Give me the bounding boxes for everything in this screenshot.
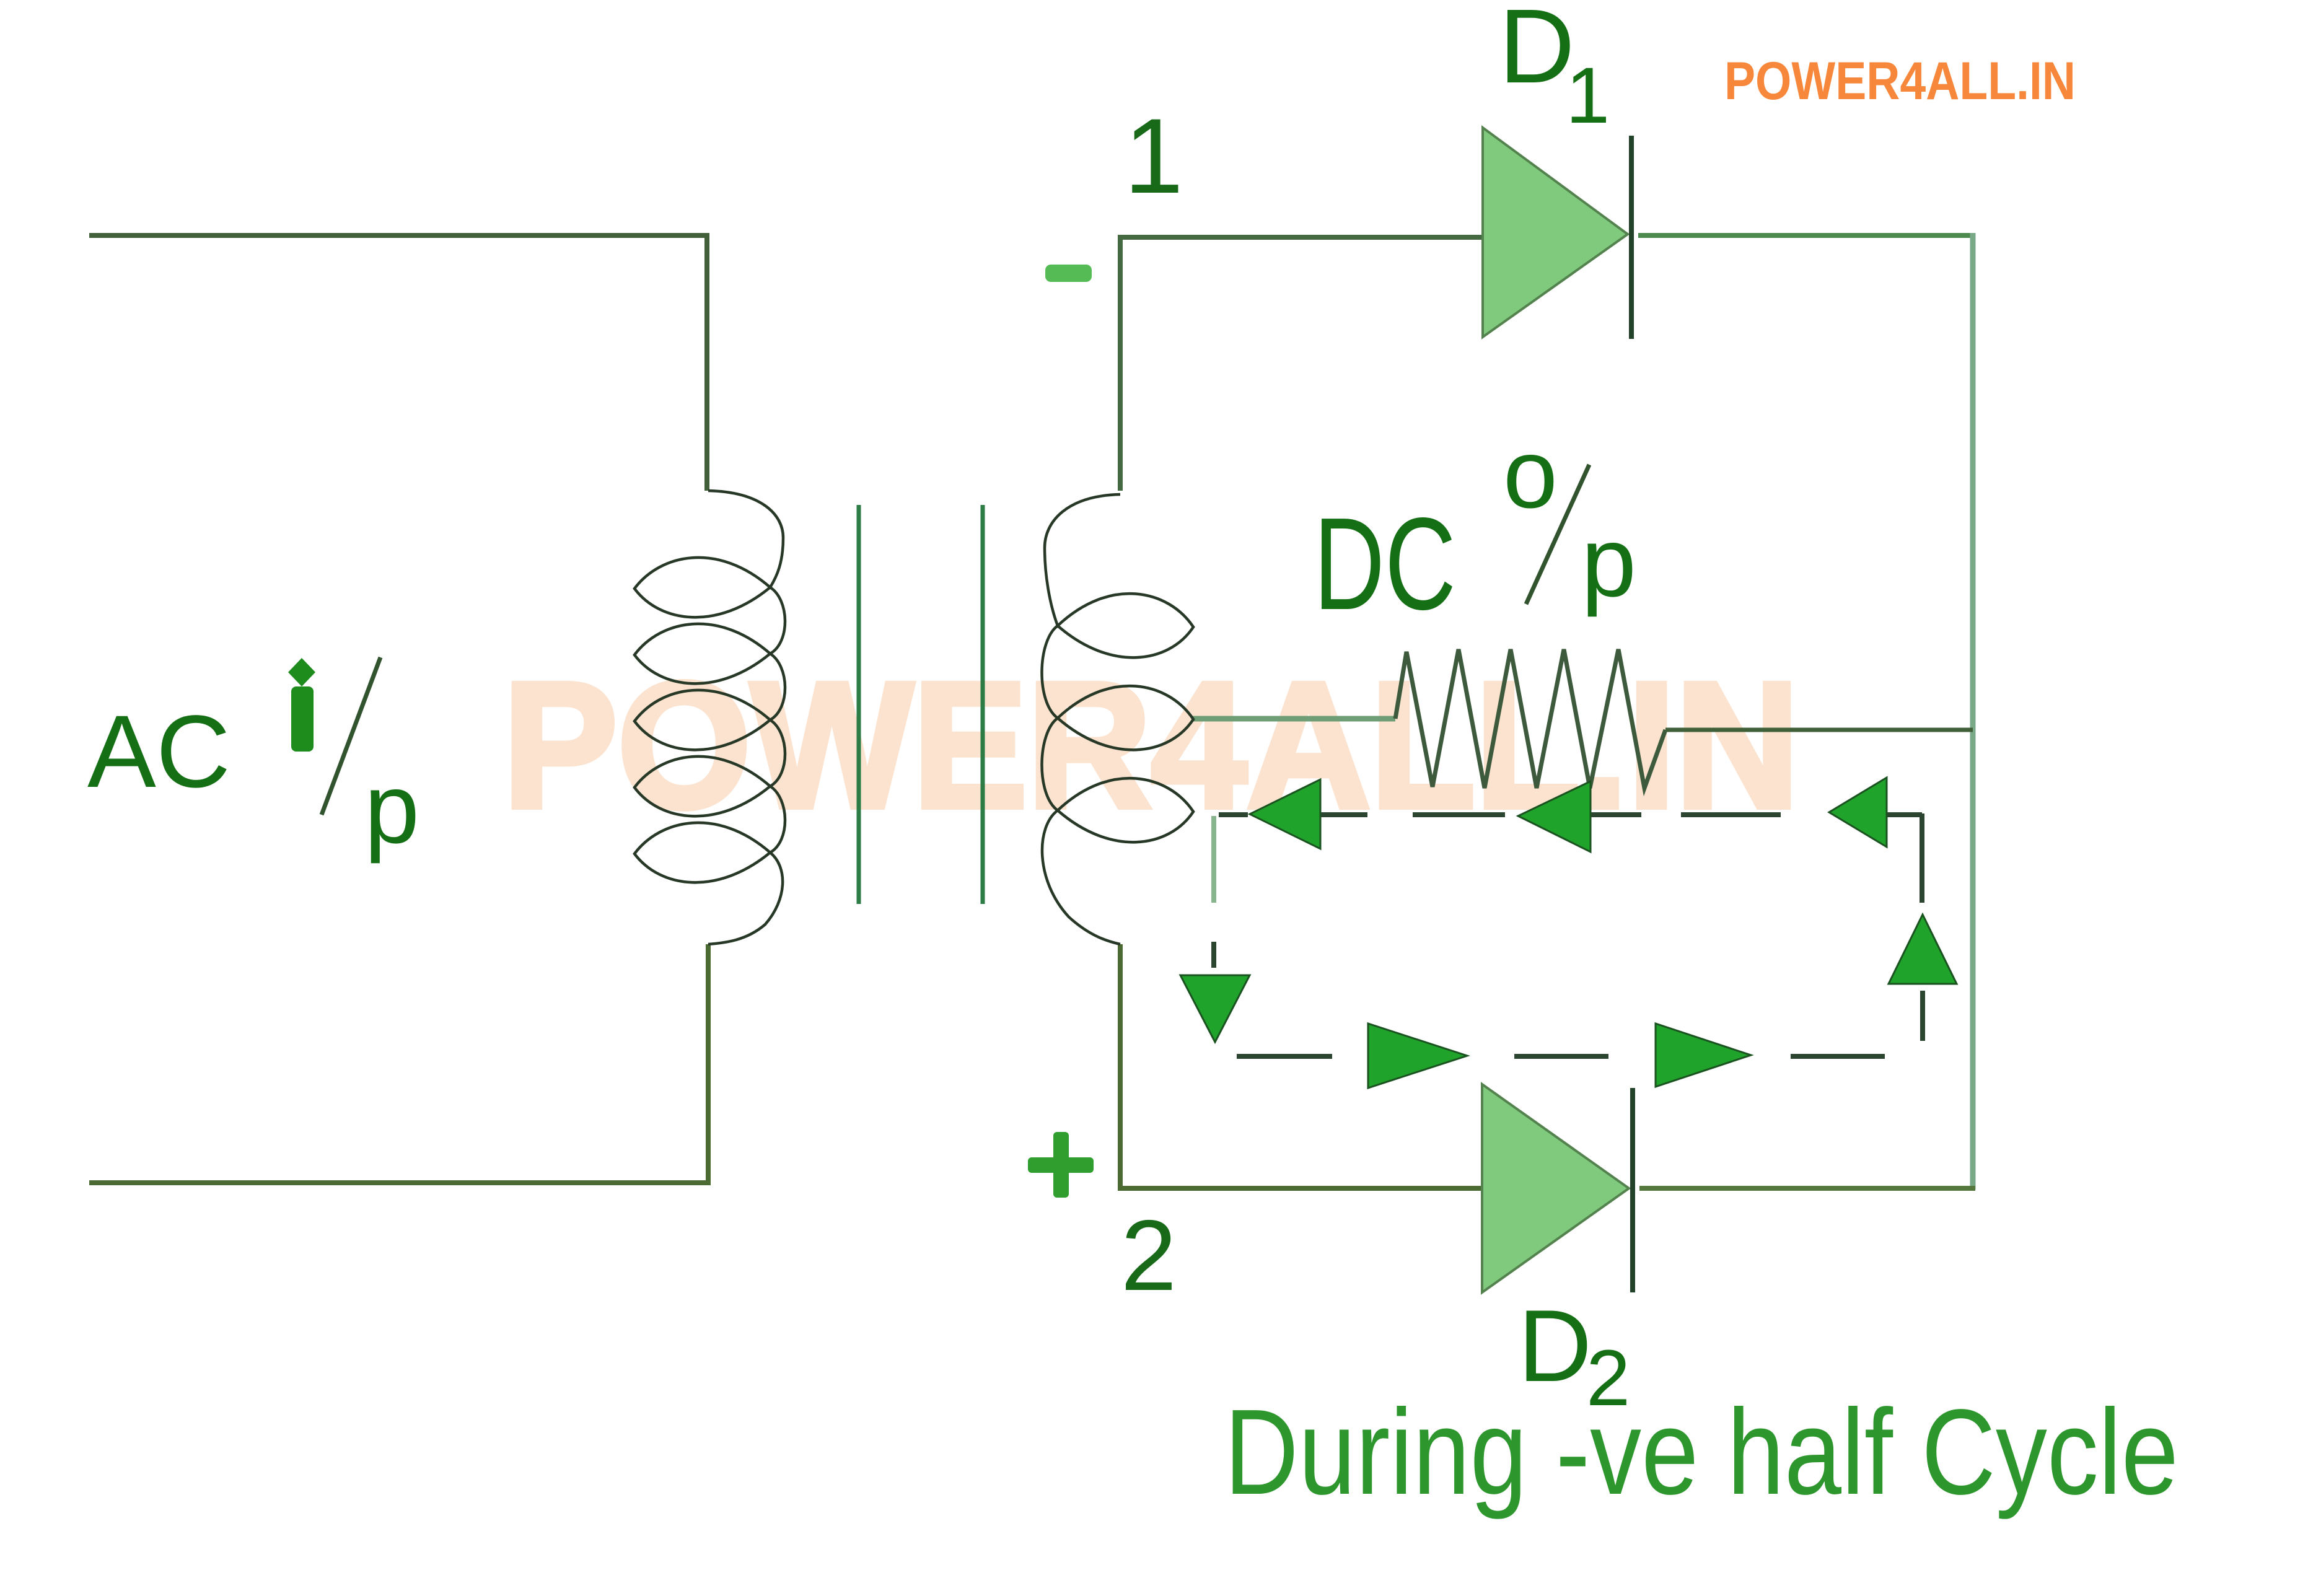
svg-text:p: p	[1581, 506, 1636, 617]
current arrow left 1 (top)	[1250, 779, 1320, 849]
svg-text:1: 1	[1124, 97, 1183, 216]
wire: secondary top terminal 1 to D1 anode	[1120, 237, 1483, 491]
svg-text:During -ve half Cycle: During -ve half Cycle	[1224, 1384, 2179, 1520]
wire: bottom rail from D2 cathode to right rail	[1639, 1186, 1975, 1191]
transformer primary winding	[634, 491, 785, 944]
wire: load to right rail	[1665, 728, 1973, 732]
current arrow right 2 (bottom)	[1656, 1024, 1751, 1087]
svg-text:2: 2	[1121, 1199, 1177, 1312]
svg-text:POWER4ALL.IN: POWER4ALL.IN	[1724, 51, 2076, 111]
transformer core line 1	[857, 505, 861, 904]
current arrow left 3 (top)	[1829, 778, 1887, 847]
dashed current path: right corner vertical	[1920, 813, 1924, 903]
diode D2 cathode bar	[1630, 1088, 1635, 1292]
current arrow down (left side)	[1180, 975, 1250, 1042]
svg-text:1: 1	[1566, 51, 1610, 140]
diode D1 triangle	[1483, 128, 1628, 337]
polarity minus (terminal 1)	[1045, 265, 1092, 282]
resistor R load zigzag	[1395, 649, 1665, 788]
dashed current path: top line segments	[1219, 812, 1248, 817]
svg-text:DC: DC	[1314, 490, 1456, 637]
wire: D1 cathode to right rail	[1638, 233, 1973, 238]
current arrow left 2 (top)	[1518, 781, 1591, 852]
diode D2 triangle	[1482, 1084, 1629, 1292]
current arrow up (right side)	[1889, 914, 1957, 984]
diode D1 cathode bar	[1629, 136, 1634, 339]
wire: right rail vertical	[1970, 233, 1976, 1190]
wire: AC input top lead	[89, 235, 707, 491]
dashed current path: left corner vertical	[1211, 816, 1216, 903]
svg-text:p: p	[364, 753, 419, 864]
wire: AC input bottom lead	[89, 944, 708, 1183]
dashed current path: bottom line segments	[1237, 1054, 1332, 1059]
polarity plus (terminal 2)	[1028, 1157, 1094, 1173]
current arrow right 1 (bottom)	[1368, 1024, 1467, 1088]
svg-text:D: D	[1499, 0, 1575, 105]
transformer core line 2	[981, 505, 985, 904]
wire: secondary bottom terminal 2 to D2 anode	[1120, 944, 1482, 1188]
transformer secondary winding (center-tapped)	[1042, 494, 1193, 944]
wire: center tap to load	[1192, 716, 1395, 722]
svg-text:AC: AC	[87, 695, 230, 809]
svg-text:o: o	[1503, 419, 1558, 528]
